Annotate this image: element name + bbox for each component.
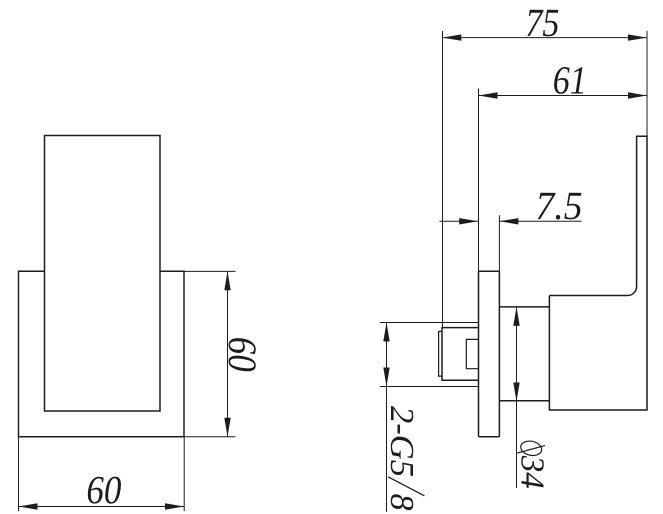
dimension line 2-G5/8 with leader [386, 323, 388, 512]
text 7.5 [535, 183, 582, 228]
svg-text:75: 75 [525, 0, 559, 45]
extension lines for vertical 60 dimension [184, 271, 236, 436]
extension line at plate right face (7.5 dim) [498, 215, 500, 271]
side view: connecting tube (diameter 34) [499, 307, 549, 401]
svg-text:7.5: 7.5 [535, 183, 582, 228]
dimension 60 (vertical, front view) [227, 271, 229, 437]
dimension 7.5 (plate thickness) [440, 220, 582, 222]
svg-text:34: 34 [514, 455, 551, 489]
extension line at box left face (75 dim) [442, 31, 444, 328]
svg-text:60: 60 [86, 467, 121, 512]
text 60 (horizontal) [86, 467, 121, 512]
side view: connector flange washer [439, 332, 442, 377]
front view: spout body tall rectangle [45, 136, 161, 412]
svg-text:2-G5: 2-G5 [383, 406, 420, 477]
slash of G5/8 [388, 477, 424, 496]
side view: wall plate (edge on) [479, 271, 500, 437]
extension line at fixture right edge (75/61 dim) [646, 31, 648, 136]
dimension 61 [479, 95, 648, 97]
label 2-G5/8 (rotated) [383, 406, 420, 511]
side view: thread shank inner rectangle [466, 339, 478, 368]
svg-text:61: 61 [553, 57, 587, 102]
dimension diameter 34 with leader [516, 307, 518, 488]
extension lines for horizontal 60 dimension [19, 437, 185, 511]
side view: body block with top panel [549, 136, 647, 410]
side view: in-wall connector box [442, 328, 479, 381]
text 61 [553, 57, 587, 102]
svg-text:8: 8 [383, 494, 420, 511]
extension lines for G5/8 thread dimension [380, 323, 479, 387]
front view: wall plate square [19, 271, 185, 437]
dimension 75 [442, 37, 647, 39]
text 60 (vertical) [220, 337, 265, 372]
label phi 34 (rotated) [517, 439, 545, 457]
dimension 60 (horizontal, front view) [19, 506, 185, 508]
svg-text:60: 60 [220, 337, 265, 372]
text 75 [525, 0, 559, 45]
extension line at plate left face (61 dim) [478, 89, 480, 272]
